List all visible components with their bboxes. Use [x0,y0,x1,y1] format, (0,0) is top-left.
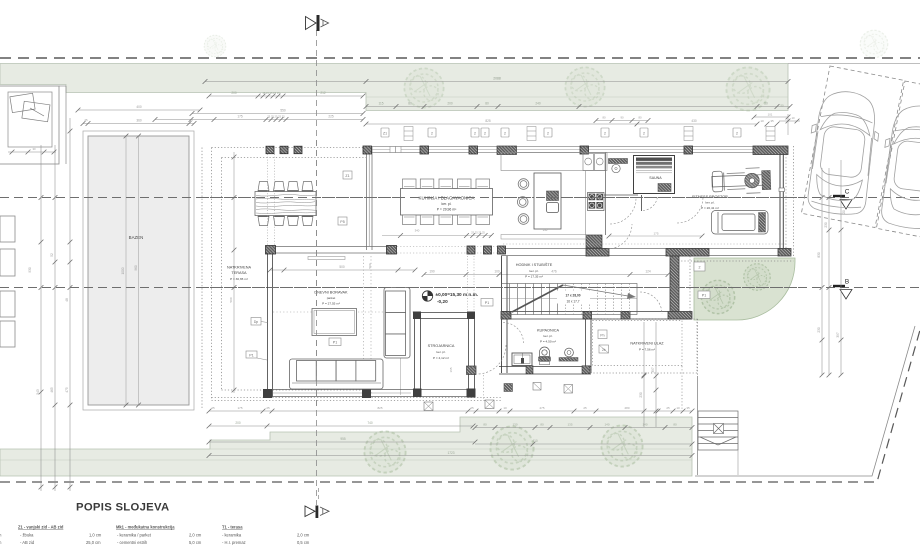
washbasin by sauna [609,159,628,164]
island stool 3 [518,214,529,225]
svg-text:2: 2 [547,132,549,136]
svg-text:80: 80 [540,423,544,427]
svg-text:80: 80 [408,102,412,106]
svg-text:1723: 1723 [447,451,454,455]
parking apron edge line [788,63,920,65]
bathroom east wall [586,319,592,373]
faint tree above boundary left [204,35,226,57]
outdoor chairs bottom [258,216,313,225]
left planter 1 [0,216,15,242]
kitchen island [534,173,561,229]
svg-text:465: 465 [50,387,54,393]
walkway east edge [697,376,699,475]
parking space 1 dashed [801,66,903,228]
door arc entrance [640,292,662,314]
svg-text:5,0 cm: 5,0 cm [189,540,202,545]
kitchen-sauna zone wall [604,194,638,196]
interior dotted wall projection lines [363,256,365,395]
svg-text:165: 165 [449,367,453,372]
tree bottom 3 [601,425,643,467]
svg-text:200: 200 [231,91,237,95]
svg-text:20: 20 [842,210,846,214]
washbasin bathroom [565,348,574,359]
svg-text:KUHINJA I BLAGAVAONICA: KUHINJA I BLAGAVAONICA [419,196,475,201]
column mid wall 1 [266,246,276,255]
svg-text:225: 225 [328,115,334,119]
sauna bench slats [636,158,672,161]
svg-text:500: 500 [339,265,345,269]
svg-text:190: 190 [429,270,435,274]
east exterior wall [780,154,783,250]
svg-text:Dp: Dp [254,320,258,324]
bottom dim chain y411 [209,410,692,412]
svg-text:550: 550 [280,109,286,113]
south wall hatch segment east [778,249,791,257]
dim line 400 pool [78,109,200,111]
svg-text:Pn: Pn [600,334,604,338]
svg-text:360: 360 [136,119,142,123]
upper south wall y248-255 [501,249,788,256]
svg-text:P = 27,55 m²: P = 27,55 m² [322,302,340,306]
tag Dp terrace [251,318,268,326]
column nw terrace 1 [266,146,274,154]
svg-text:80: 80 [485,102,489,106]
svg-text:B: B [845,279,849,286]
svg-text:175: 175 [237,115,243,119]
svg-text:FITNESS PROSTOR: FITNESS PROSTOR [692,195,728,199]
bathroom south wall [499,367,591,375]
door arc sauna-fitness [677,197,703,223]
svg-text:430: 430 [691,119,697,123]
stairs [502,284,638,315]
svg-text:ker. pl.: ker. pl. [529,269,538,273]
green lawn strip bottom [0,417,692,476]
svg-text:ker. pl.: ker. pl. [543,334,552,338]
tree entrance quarter 1 [701,280,735,314]
svg-text:Z1: Z1 [383,132,387,136]
sauna stove [658,184,671,192]
bottom dim chain y426 left [209,425,473,427]
column south wall 1 [263,389,272,398]
door arc kitchen-hall [607,224,632,249]
tag window on green [694,262,705,271]
svg-text:10: 10 [791,116,795,120]
fitness label [692,195,728,210]
svg-text:POPIS SLOJEVA: POPIS SLOJEVA [76,502,169,514]
column projection dotted hall [468,256,475,311]
svg-text:ker. pl.: ker. pl. [442,202,452,206]
washbasin hatch counter [559,358,578,362]
car 2 partial [875,102,920,231]
section marker B [833,279,852,300]
section line C horizontal dashed [0,197,920,199]
small dim cluster top right [779,114,800,135]
svg-text:-0,20: -0,20 [437,299,448,304]
bottom dim chain y427 right [475,427,692,429]
column strojarnica nw [413,312,421,320]
door arc corridor-sauna [610,198,636,224]
column north wall 2 [420,146,429,154]
svg-text:BAZEN: BAZEN [129,235,144,240]
svg-text:400: 400 [136,105,142,109]
island sink drainer [547,191,559,201]
lawn bottom inner lines [0,449,692,460]
ceiling overhang dotted [503,243,786,245]
kitchen appliance 2 [595,154,606,171]
pool dim line 1000 [121,134,128,408]
svg-text:140: 140 [642,423,647,427]
svg-text:P = 7,56 m²: P = 7,56 m² [639,348,655,352]
svg-text:- H.I. premaz: - H.I. premaz [222,540,246,545]
door arc bathroom [503,323,524,344]
svg-text:15 15 15 15 15: 15 15 15 15 15 [262,91,280,95]
svg-text:P = 20,41 m²: P = 20,41 m² [701,206,719,210]
island sink bowl [547,203,559,213]
dim chain top right y106 [366,106,790,108]
svg-text:- keramika / parket: - keramika / parket [117,533,152,538]
treadmill [712,167,771,194]
layer list column 1 edge fragment [0,533,2,545]
plot boundary bottom dashed [0,330,920,482]
svg-text:500: 500 [229,297,233,302]
svg-text:543: 543 [36,389,40,395]
garage sketch rect B [22,101,50,121]
island stool 2 [517,197,528,208]
svg-text:Mk1 - međukatna konstrukcija: Mk1 - međukatna konstrukcija [116,525,175,530]
svg-text:parket: parket [327,296,336,300]
svg-text:P1: P1 [249,354,253,358]
svg-text:Z1 - vanjski zid - AB zid: Z1 - vanjski zid - AB zid [18,525,64,530]
stair south wall [501,312,692,320]
svg-text:90: 90 [620,116,624,120]
tag Z1 terrace [246,351,267,360]
svg-text:35: 35 [770,119,774,123]
column strojarnica se [467,389,476,398]
svg-text:2: 2 [699,266,701,270]
svg-text:- AB zid: - AB zid [20,540,35,545]
strojarnica west wall [415,312,421,396]
green lawn strip top [0,64,788,111]
dim chain top left y96 [209,95,363,97]
svg-text:1,0 cm: 1,0 cm [89,533,102,538]
sofa horizontal [290,359,384,389]
tag P1 porch green [698,291,710,299]
svg-text:25 25 25 25 25: 25 25 25 25 25 [267,115,285,119]
left vertical dim line 3 [65,118,72,491]
svg-text:2: 2 [643,132,645,136]
svg-text:ker. pl.: ker. pl. [436,350,445,354]
right vertical dim line 3 [836,160,846,377]
svg-text:ker. pl.: ker. pl. [705,201,714,205]
stair hall west wall [502,256,508,373]
section line A overlay [316,140,318,410]
south wall hatch segment kitchen [586,249,609,257]
tag x bath3 [564,385,573,394]
svg-text:50: 50 [780,104,784,108]
plot boundary bottom inner solid [695,326,915,476]
svg-text:200: 200 [447,102,453,106]
svg-text:2: 2 [504,132,506,136]
svg-text:280: 280 [624,406,629,410]
svg-text:2088: 2088 [493,77,501,81]
svg-text:25: 25 [84,118,88,122]
svg-text:175: 175 [653,232,658,236]
svg-text:955: 955 [340,437,346,441]
tree entrance quarter 2 [744,264,771,291]
small dim chain 80-90-80 [596,120,648,122]
svg-text:230: 230 [639,392,643,398]
dim 340 under table [382,235,492,237]
svg-text:25,0 cm: 25,0 cm [86,540,101,545]
svg-text:2b: 2b [602,348,606,352]
dim line 550 [192,113,363,115]
svg-text:140: 140 [604,423,609,427]
strojarnica east wall [469,312,475,396]
entry stair X mark [714,424,724,434]
svg-text:475: 475 [65,387,69,393]
tree top 2 [565,67,605,107]
dim chain 2088 [205,81,788,83]
column kitchen sw hatched [586,235,602,248]
mid vertical dim line 1 [639,322,646,427]
svg-text:16 x 17,7: 16 x 17,7 [566,300,579,304]
north-east wall corner hatched [753,146,788,155]
washbasin bowl [612,164,620,172]
column mid wall 2 [387,246,397,255]
svg-text:- keramika: - keramika [222,533,242,538]
svg-text:930: 930 [28,267,32,273]
layer list column 3 [222,525,310,545]
tree bottom 1 [364,431,406,473]
svg-text:390: 390 [543,228,548,232]
section line C overlay [200,197,800,199]
left planter 2 [0,249,15,276]
section marker C [833,189,852,210]
datum mark [422,291,478,304]
svg-text:476: 476 [551,270,557,274]
column mid wall 3 [467,246,475,254]
section marker A top [306,15,329,31]
svg-text:10: 10 [503,406,507,410]
tree bottom 2 [490,426,534,470]
living south glass wall [267,390,475,397]
stair south wall hatch 3 [621,312,630,320]
svg-text:25: 25 [189,118,193,122]
door arc strojarnica [477,345,506,374]
column north wall 6 [684,146,693,154]
svg-text:1000: 1000 [121,267,125,274]
island stool 1 [518,179,529,190]
svg-text:100: 100 [494,270,500,274]
right vertical dim line 2 [824,168,831,377]
label entrance porch [630,342,664,352]
svg-text:50: 50 [764,102,768,106]
svg-text:STROJARNICA: STROJARNICA [428,344,455,348]
stair south wall hatch 1 [501,312,511,320]
svg-text:P1: P1 [333,341,337,345]
window sill symbol 2 [527,127,536,141]
tag kitchen wall [343,171,352,179]
bottom dim line 410 [475,443,692,445]
shower cabinet [512,353,532,366]
svg-text:P1: P1 [485,301,489,305]
label hall [516,262,553,279]
pool BAZEN [88,136,189,405]
dining table indoor [401,189,493,216]
garage sketch rect A [10,93,35,112]
bathroom south wall column 2 [582,366,590,374]
svg-text:115: 115 [378,102,383,106]
svg-text:P = 30,65 m²: P = 30,65 m² [230,277,248,281]
garage sketch diagonal [30,108,44,116]
label bathroom [537,329,560,344]
svg-text:25: 25 [470,406,474,410]
layer list column 2 [116,525,202,545]
svg-text:130: 130 [512,423,517,427]
tag x bath2 [533,383,541,391]
fitness bench [712,211,769,235]
svg-text:200: 200 [235,421,241,425]
coffee table [312,309,357,336]
svg-text:30: 30 [32,147,36,151]
svg-text:HODNIK I STUBIŠTE: HODNIK I STUBIŠTE [516,262,553,267]
column strojarnica e mid hatched [467,366,477,375]
mid vertical dim line 2 [651,322,658,427]
svg-text:80: 80 [673,423,677,427]
left vertical dim line 1 [28,145,43,491]
svg-text:825: 825 [377,406,382,410]
svg-text:740: 740 [367,421,373,425]
svg-text:340: 340 [415,229,420,233]
right vertical dim line 1 [817,168,824,377]
sliding door leaf [308,257,345,260]
tag P1 hall [481,299,493,307]
svg-text:2: 2 [604,132,606,136]
column north wall 5 [580,146,589,154]
svg-text:410: 410 [532,439,538,443]
tree top 1 [404,68,444,108]
car 1 [802,88,883,218]
window jamb north wall [390,147,401,153]
layer list column 1 [18,525,102,545]
svg-text:230: 230 [824,222,828,228]
porch tag 2 [599,345,609,353]
bathroom south wall column 1 [526,366,533,374]
svg-text:NATKRIVENI ULAZ: NATKRIVENI ULAZ [630,342,664,346]
bottom dim line 955 [209,441,475,443]
label strojarnica [428,344,455,360]
svg-text:80: 80 [602,116,606,120]
left vertical dim line 2 [50,145,57,491]
column strojarnica ne [467,312,475,320]
column nw terrace 2 [280,146,288,154]
svg-text:52: 52 [50,253,54,257]
svg-text:17 x 28,00: 17 x 28,00 [565,294,580,298]
column strojarnica sw [413,389,422,398]
sauna door leaf [641,195,643,211]
svg-text:830: 830 [817,252,821,258]
svg-text:25: 25 [266,406,270,410]
svg-text:2: 2 [431,132,433,136]
svg-text:NATKRIVENA: NATKRIVENA [227,266,251,270]
column south wall 2 [362,389,371,398]
sauna room [634,156,675,194]
pergola column projection dotted [268,154,275,246]
svg-text:48: 48 [65,298,69,302]
dining chairs top [403,179,490,189]
garage box dim ticks [8,147,56,154]
svg-text:KUPAONICA: KUPAONICA [537,329,560,333]
window sill symbol 4 [766,127,775,141]
svg-text:80: 80 [638,116,642,120]
porch wall hatch [668,312,692,320]
svg-text:P = 4,50 m²: P = 4,50 m² [540,340,556,344]
column nw terrace 3 [294,146,302,154]
dining chairs bottom [403,215,490,225]
svg-text:2,0 cm: 2,0 cm [189,533,202,538]
tag P1 living [329,338,341,346]
terrace vertical dim line [229,152,236,393]
svg-text:±0,00=15,30 m n.m.: ±0,00=15,30 m n.m. [436,292,479,297]
svg-text:35: 35 [686,406,690,410]
window sill symbol 3 [684,127,693,141]
roof overhang dotted outline terrace [202,146,794,408]
svg-text:- žbuka: - žbuka [20,533,34,538]
label living room [314,291,348,306]
section marker A bottom [305,488,329,518]
pool deck [83,131,194,410]
label terrace [227,266,251,282]
south wall hatch segment fitness [666,249,709,257]
svg-text:0,5 cm: 0,5 cm [297,540,310,545]
plot boundary top dashed [0,57,920,59]
column north wall 3 [469,146,478,154]
green entrance quarter circle [694,258,795,320]
kitchen south counter [501,235,586,240]
faint tree above boundary right [860,30,888,58]
svg-text:2: 2 [484,132,486,136]
svg-text:124: 124 [645,270,651,274]
living west wall [268,250,273,397]
column north wall 1 [363,146,372,154]
dotted below strojarnica [483,375,485,399]
section line B overlay [200,287,800,289]
svg-text:2,0 cm: 2,0 cm [297,533,310,538]
kitchen side counter [585,171,587,235]
east wall sill mark [779,188,785,192]
tag x bath [504,384,513,392]
svg-text:397: 397 [651,367,655,373]
svg-text:80: 80 [483,423,487,427]
label kitchen-dining [419,196,475,212]
svg-text:500: 500 [368,263,372,268]
svg-text:10: 10 [676,406,680,410]
dim line 360 pool [83,123,194,125]
svg-text:212: 212 [320,91,326,95]
tag terrace mid [338,217,347,225]
svg-text:P = 17,35 m²: P = 17,35 m² [525,275,543,279]
living north wall [267,247,397,254]
garage sketch box [0,86,66,164]
section line A vertical dashed [316,30,318,505]
svg-text:25: 25 [583,406,587,410]
svg-text:25: 25 [666,406,670,410]
column mid wall 4 [484,246,492,254]
svg-text:2: 2 [474,132,476,136]
lawn strip inner edge line [366,96,788,98]
svg-text:25: 25 [211,406,215,410]
svg-text:825: 825 [485,119,491,123]
